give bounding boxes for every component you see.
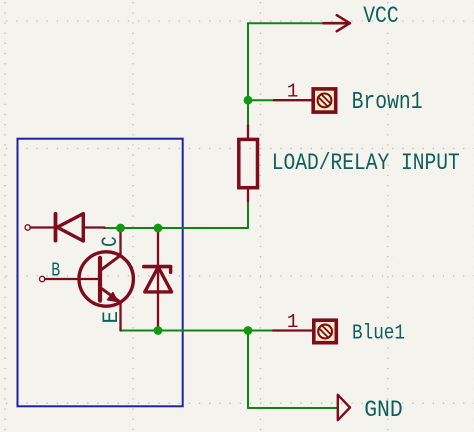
svg-text:C: C [99,236,124,247]
svg-text:GND: GND [364,397,403,424]
svg-text:LOAD/RELAY INPUT: LOAD/RELAY INPUT [272,150,460,177]
svg-text:E: E [100,311,125,324]
svg-text:1: 1 [287,80,299,102]
svg-text:1: 1 [287,311,299,333]
svg-text:Blue1: Blue1 [352,322,405,346]
svg-text:Brown1: Brown1 [352,88,423,115]
svg-text:VCC: VCC [363,3,399,30]
svg-text:B: B [51,260,60,282]
